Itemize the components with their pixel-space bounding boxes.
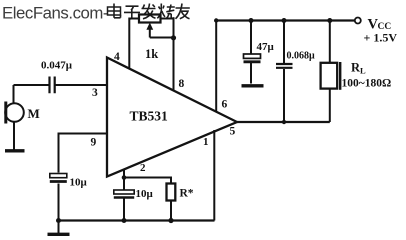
svg-text:+ 1.5V: + 1.5V (364, 31, 398, 45)
ground (47u) (242, 84, 264, 87)
svg-text:47μ: 47μ (257, 41, 275, 53)
svg-text:2: 2 (140, 162, 146, 174)
pin 9 label (91, 137, 97, 149)
op-amp U1 TB531 (107, 58, 237, 177)
potentiometer VR1 1k (139, 15, 161, 23)
svg-text:TB531: TB531 (130, 109, 169, 124)
node 0.068u (282, 18, 287, 23)
友 (176, 4, 190, 19)
node pin2 junction (122, 175, 127, 180)
发 (142, 4, 156, 19)
junction (168, 218, 173, 223)
node 0.068 apex (282, 120, 286, 124)
svg-text:4: 4 (114, 51, 120, 63)
wire pin2 (123, 169, 125, 221)
pin 1 label (203, 136, 209, 148)
svg-text:0.068μ: 0.068μ (287, 51, 316, 62)
pin 5 label (230, 126, 236, 138)
svg-text:M: M (28, 106, 40, 121)
svg-text:5: 5 (230, 126, 236, 138)
svg-text:8: 8 (179, 78, 185, 90)
svg-text:L: L (360, 66, 366, 76)
ground (mic) (13, 122, 15, 150)
resistor RL (329, 21, 331, 63)
junction (171, 35, 176, 40)
svg-text:ElecFans.com-: ElecFans.com- (2, 4, 108, 23)
wire Vcc rail (216, 19, 354, 21)
junction (122, 218, 127, 223)
ground (rail) (58, 221, 60, 234)
resistor R* (167, 184, 176, 201)
wire pin6 (215, 21, 217, 112)
烧 (157, 4, 175, 19)
svg-text:1: 1 (203, 136, 209, 148)
pin 8 label (179, 78, 185, 90)
svg-text:10μ: 10μ (136, 188, 154, 200)
capacitor C5 0.068u (283, 21, 285, 64)
wire pin4 (129, 19, 139, 69)
svg-text:0.047μ: 0.047μ (41, 60, 73, 72)
wire wiper (150, 37, 174, 39)
svg-text:1k: 1k (145, 47, 158, 61)
wire pin5 output (237, 121, 330, 123)
子 (124, 6, 140, 19)
junction (56, 218, 61, 223)
capacitor C1 0.047u (50, 77, 55, 94)
wire pot right to pin8 (161, 19, 174, 91)
wire pin2 to R* (124, 178, 171, 184)
svg-text:100~180Ω: 100~180Ω (342, 78, 392, 90)
wire ground rail (59, 219, 215, 221)
microphone M (5, 103, 24, 122)
capacitor C3 10u (114, 190, 134, 194)
capacitor C4 47u (250, 21, 252, 54)
svg-text:3: 3 (92, 87, 98, 99)
node RL (327, 18, 332, 23)
pin 2 label (140, 162, 146, 174)
svg-text:6: 6 (222, 99, 228, 111)
svg-text:R*: R* (180, 188, 194, 200)
pin 6 label (222, 99, 228, 111)
wire pin1 (213, 130, 215, 221)
svg-text:10μ: 10μ (70, 177, 88, 189)
wire pin3 input (14, 85, 108, 103)
wiper arrow (149, 28, 151, 38)
wire pin9 (59, 134, 108, 221)
node corner (214, 18, 218, 22)
node 47u (249, 18, 254, 23)
pin 4 label (114, 51, 120, 63)
pin 3 label (92, 87, 98, 99)
watermark ElecFans.com-电子发烧友 (2, 4, 108, 23)
svg-text:9: 9 (91, 137, 97, 149)
terminal Vcc (355, 18, 361, 24)
capacitor C2 10u (50, 174, 67, 178)
电 (108, 4, 121, 18)
